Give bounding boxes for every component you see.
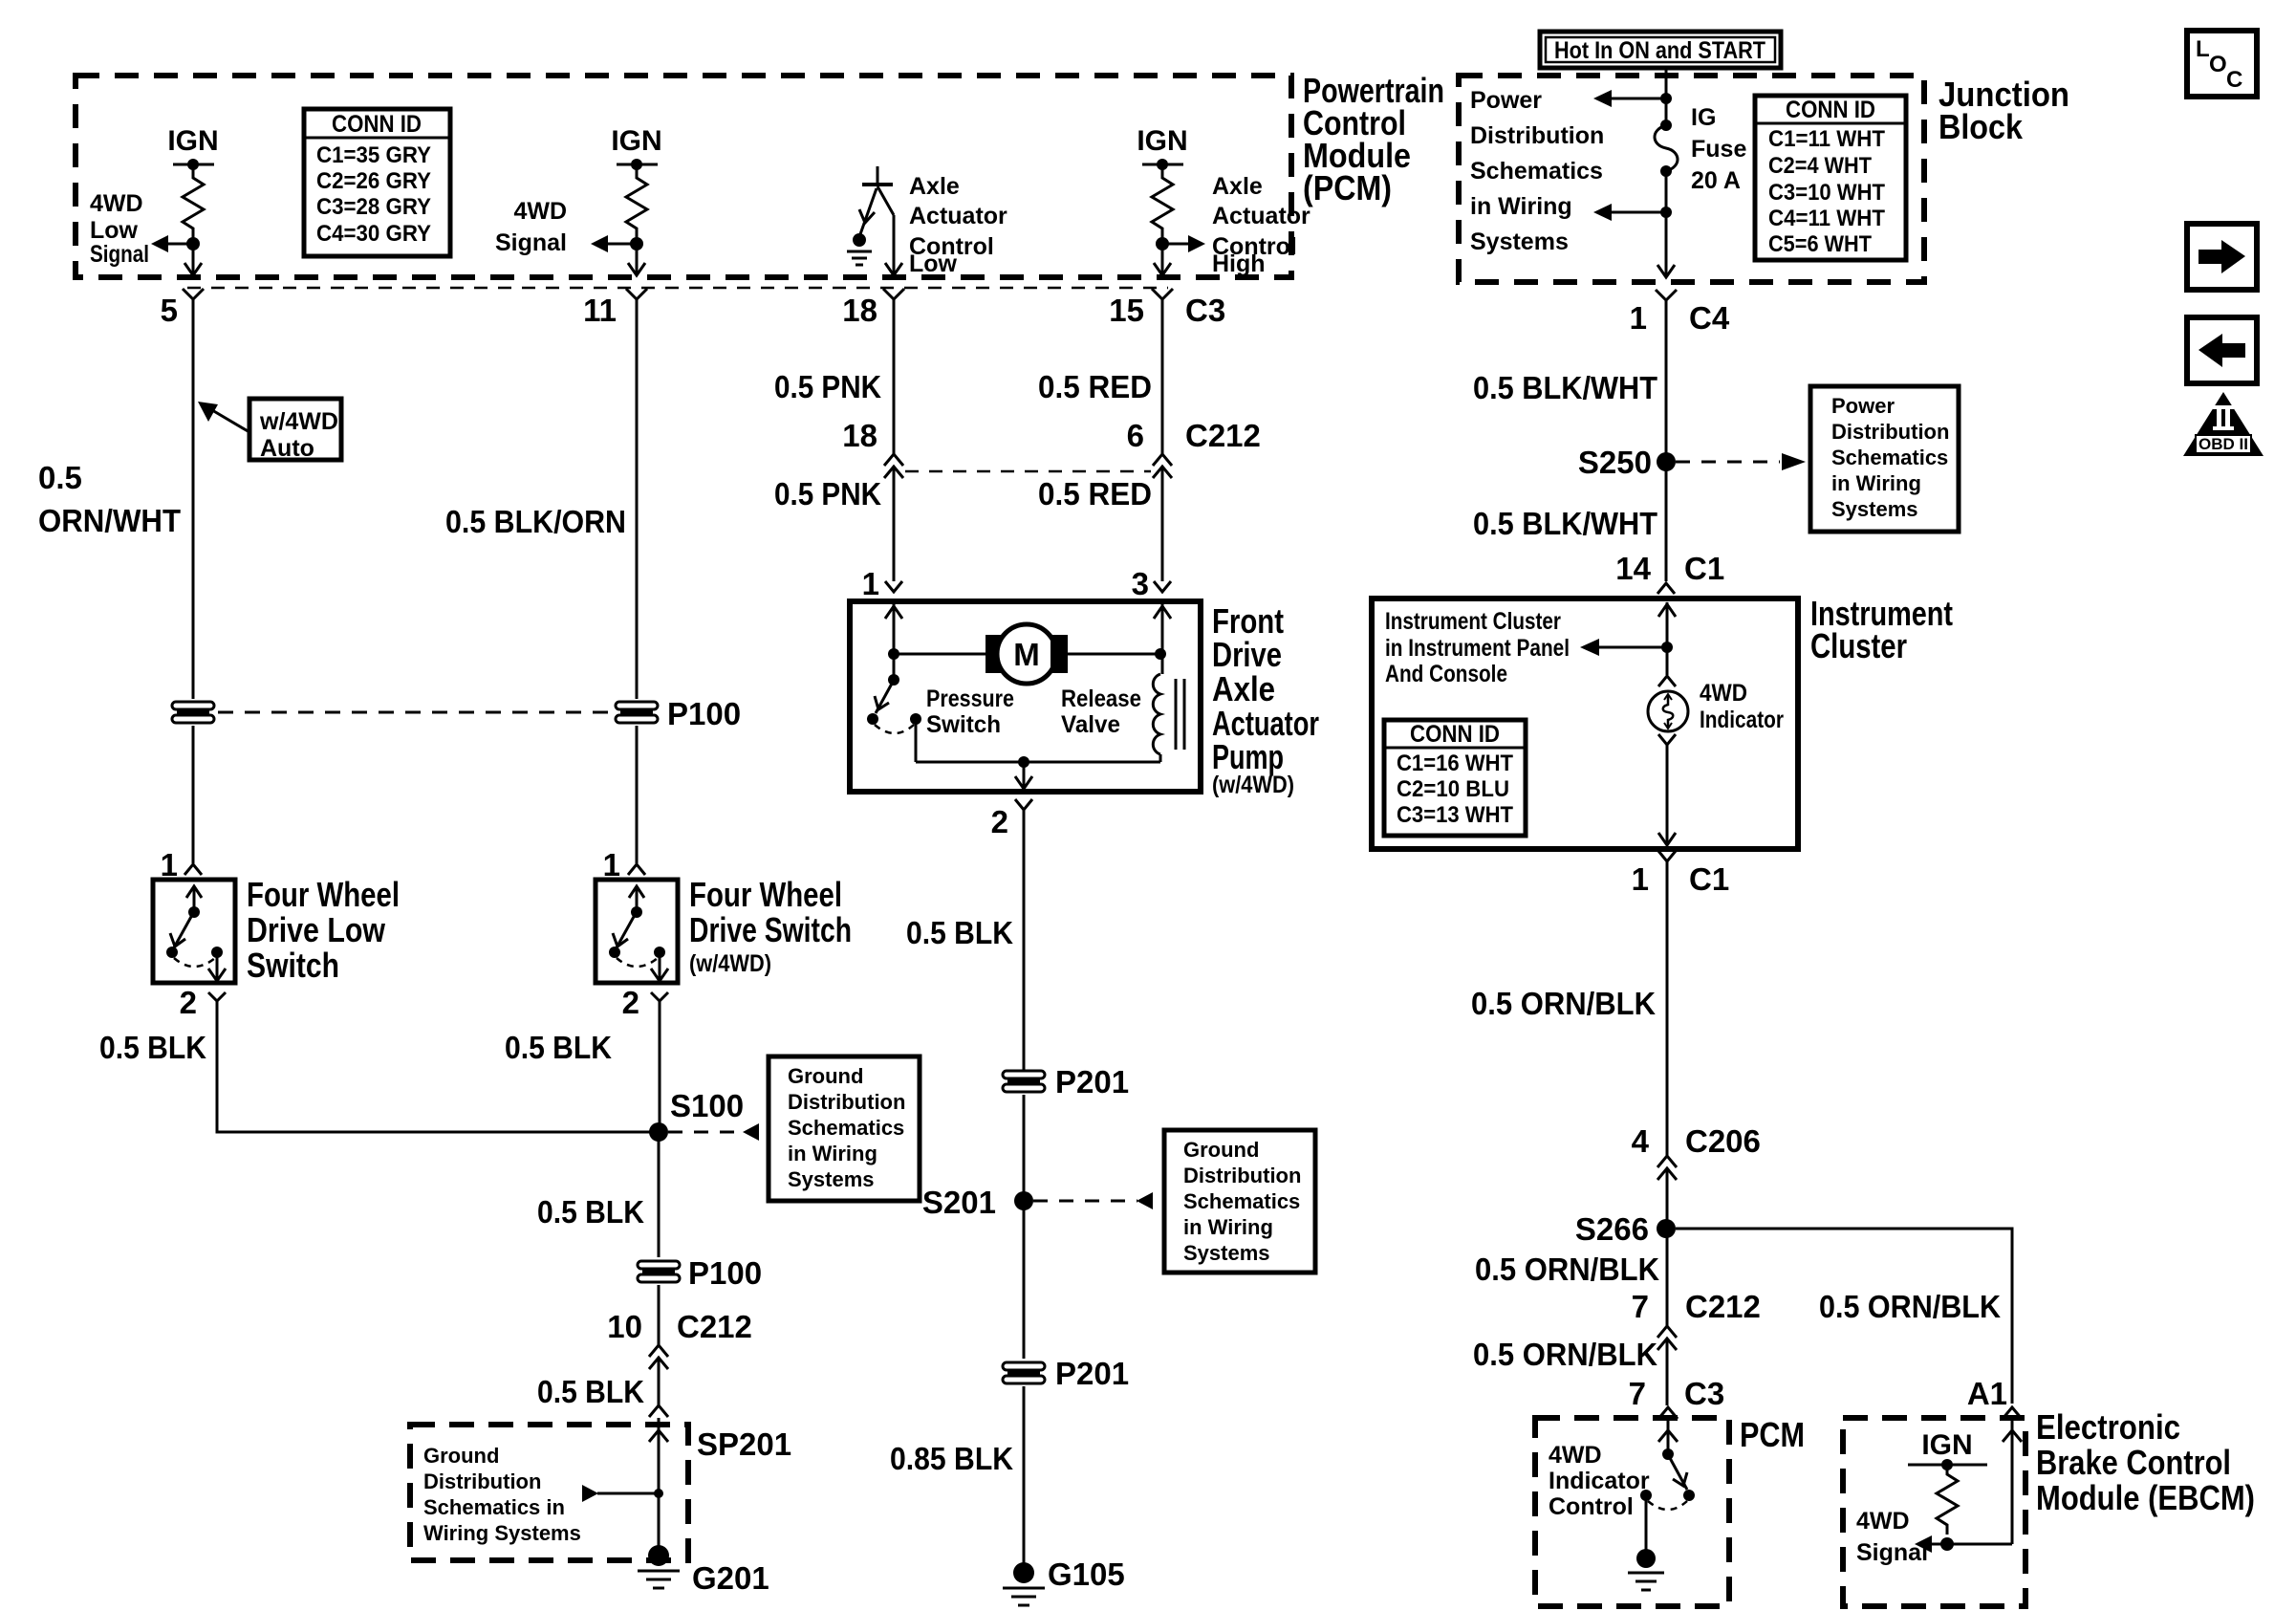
svg-text:C3=13 WHT: C3=13 WHT: [1397, 802, 1513, 828]
svg-text:IGN: IGN: [1137, 125, 1187, 157]
svg-text:4WD: 4WD: [1856, 1508, 1910, 1535]
svg-text:Hot In ON and START: Hot In ON and START: [1554, 37, 1765, 64]
wire (pin 15 to C212): [1161, 299, 1164, 454]
svg-text:2: 2: [991, 804, 1008, 839]
wire (pin 11 to P100): [636, 299, 639, 699]
svg-text:0.5 BLK/WHT: 0.5 BLK/WHT: [1473, 506, 1657, 541]
wire (pin 5 to P100): [192, 299, 195, 699]
label Instrument Cluster: [1810, 594, 1953, 665]
svg-text:Control: Control: [1549, 1493, 1634, 1520]
svg-text:Cluster: Cluster: [1810, 626, 1907, 665]
OBD II triangle badge: [2183, 392, 2264, 456]
label Power Distribution Schematics in Wiring Systems (JB): [1470, 87, 1604, 255]
grommet P100 (wire 2): [616, 702, 658, 723]
switch 4WD Indicator Control driver (PCM): [1640, 1448, 1695, 1553]
svg-text:Switch: Switch: [926, 711, 1001, 738]
connector C212 chevrons (right): [1657, 1326, 1677, 1405]
dashed link C212: [905, 470, 1151, 473]
wire (JB output to pin 1 C4): [1657, 212, 1675, 277]
svg-text:C3=28 GRY: C3=28 GRY: [316, 194, 431, 220]
label Electronic Brake Control Module (EBCM): [2036, 1407, 2255, 1517]
resistor (Axle Actuator Control High): [1152, 164, 1173, 242]
svg-text:Signal: Signal: [495, 229, 567, 256]
svg-text:Schematics: Schematics: [1183, 1189, 1300, 1213]
node 4WD Signal arrow (EBCM): [1915, 1420, 2022, 1553]
svg-text:Wiring Systems: Wiring Systems: [423, 1521, 581, 1545]
label 4WD Signal (EBCM): [1856, 1508, 1928, 1566]
connector line C1-C4 (thin dashed): [187, 287, 1168, 290]
connector fork pin 1 (switch 2): [628, 864, 645, 875]
svg-text:Systems: Systems: [788, 1167, 875, 1191]
label 4WD Indicator Control: [1549, 1442, 1650, 1520]
node feed branch arrow (lower): [1593, 171, 1672, 221]
svg-text:0.5 BLK: 0.5 BLK: [505, 1030, 612, 1065]
ground G105: [1003, 1562, 1045, 1605]
connector chevron (above PCM): [1658, 1407, 1678, 1419]
label 4WD Low Signal: [90, 190, 149, 268]
svg-text:(w/4WD): (w/4WD): [689, 950, 771, 977]
svg-text:Schematics in: Schematics in: [423, 1495, 565, 1519]
node IGN (wire 2): [611, 125, 661, 170]
wire (pin 15 exit, PCM): [1154, 244, 1171, 275]
wire (pin 18 to C212): [893, 299, 896, 454]
wire (cluster to C206): [1666, 861, 1669, 1156]
svg-text:Switch: Switch: [247, 946, 339, 985]
svg-text:IGN: IGN: [611, 125, 661, 157]
svg-text:0.5 BLK/WHT: 0.5 BLK/WHT: [1473, 370, 1657, 405]
label Release Valve: [1061, 686, 1141, 738]
wire (pin 18 exit, PCM): [885, 215, 902, 275]
connector fork pin 2 (switch 1): [208, 992, 226, 1001]
svg-text:C1=35 GRY: C1=35 GRY: [316, 142, 431, 168]
wire (lamp to cluster pin 1): [1658, 734, 1676, 845]
lamp 4WD Indicator: [1648, 691, 1688, 731]
wire (pump pin 1 internal): [885, 604, 902, 660]
svg-text:High: High: [1212, 250, 1266, 277]
svg-text:C: C: [2226, 67, 2242, 93]
reference arrow SP201: [582, 1485, 663, 1502]
label Instrument Cluster in Instrument Panel And Console: [1385, 608, 1570, 687]
label Ground Distribution Schematics in Wiring Systems (SP201): [423, 1444, 581, 1545]
svg-text:CONN ID: CONN ID: [332, 111, 422, 138]
svg-text:4WD: 4WD: [513, 198, 567, 225]
svg-text:0.5 BLK: 0.5 BLK: [537, 1194, 644, 1230]
svg-text:0.5 PNK: 0.5 PNK: [774, 476, 881, 512]
reference arrow S250 (dashed to Power Distribution): [1676, 453, 1806, 470]
wire (pin 11 exit, PCM): [628, 244, 645, 275]
svg-text:IGN: IGN: [1921, 1429, 1972, 1461]
svg-text:Electronic: Electronic: [2036, 1407, 2180, 1447]
PCM label "Powertrain Control Module (PCM)": [1303, 71, 1444, 207]
svg-text:20 A: 20 A: [1691, 167, 1741, 194]
Front Drive Axle Actuator Pump box: [850, 601, 1201, 792]
connector fork pin 2 (switch 2): [651, 992, 668, 1001]
svg-text:(w/4WD): (w/4WD): [1212, 772, 1294, 798]
svg-text:0.5 BLK/ORN: 0.5 BLK/ORN: [445, 504, 626, 539]
grommet P100 (wire 1): [172, 702, 214, 723]
svg-text:15: 15: [1109, 293, 1144, 328]
svg-text:C4=30 GRY: C4=30 GRY: [316, 221, 431, 247]
svg-text:Drive Switch: Drive Switch: [689, 910, 852, 949]
svg-text:P100: P100: [688, 1255, 762, 1291]
svg-text:14: 14: [1615, 551, 1651, 586]
svg-text:Schematics: Schematics: [788, 1116, 904, 1140]
ground G201: [638, 1545, 680, 1588]
svg-text:C1=11 WHT: C1=11 WHT: [1768, 126, 1885, 152]
reference box Ground Distribution Schematics in Wiring Systems (S201): [1164, 1130, 1315, 1273]
svg-text:3: 3: [1132, 566, 1149, 601]
svg-text:C5=6 WHT: C5=6 WHT: [1768, 231, 1872, 257]
label Four Wheel Drive Switch (w/4WD): [689, 875, 852, 977]
svg-text:0.5 BLK: 0.5 BLK: [537, 1374, 644, 1409]
svg-text:Four Wheel: Four Wheel: [689, 875, 842, 914]
svg-text:in Wiring: in Wiring: [1831, 471, 1921, 495]
reference box Ground Distribution Schematics in Wiring Systems (S100): [769, 1056, 920, 1201]
svg-text:Auto: Auto: [260, 435, 314, 462]
connector fork pin 1 (switch 1): [184, 864, 202, 875]
svg-text:G105: G105: [1048, 1557, 1125, 1592]
svg-text:Power: Power: [1831, 394, 1895, 418]
svg-text:P100: P100: [667, 696, 741, 731]
svg-text:Instrument Cluster: Instrument Cluster: [1385, 608, 1561, 635]
svg-text:2: 2: [180, 985, 197, 1020]
svg-text:P201: P201: [1055, 1064, 1129, 1099]
PCM module dashed box: [76, 76, 1291, 277]
dashed link P100 pair: [218, 711, 612, 714]
svg-text:C2=26 GRY: C2=26 GRY: [316, 168, 431, 194]
splice S201: [1014, 1191, 1033, 1210]
svg-text:P201: P201: [1055, 1356, 1129, 1391]
svg-text:Signal: Signal: [90, 241, 149, 268]
svg-text:Brake Control: Brake Control: [2036, 1443, 2231, 1482]
svg-text:Indicator: Indicator: [1549, 1468, 1650, 1494]
svg-text:0.85 BLK: 0.85 BLK: [890, 1441, 1013, 1476]
label Junction Block: [1939, 75, 2069, 146]
SP201 dashed box: [410, 1425, 688, 1560]
svg-text:0.5: 0.5: [38, 460, 82, 495]
wire (C3 into PCM): [1658, 1420, 1678, 1454]
svg-text:4WD: 4WD: [1700, 680, 1747, 707]
svg-text:0.5 ORN/BLK: 0.5 ORN/BLK: [1471, 986, 1656, 1021]
node cluster feed arrow: [1580, 639, 1667, 656]
svg-text:7: 7: [1629, 1376, 1646, 1411]
legend left-arrow box: [2187, 317, 2257, 383]
svg-text:C4=11 WHT: C4=11 WHT: [1768, 206, 1885, 231]
resistor (4WD Low Signal pull-up): [183, 164, 204, 242]
wire (switch 2 pin 2 down to S100): [659, 1001, 661, 1132]
svg-text:C2=4 WHT: C2=4 WHT: [1768, 153, 1872, 179]
wire (C4 to instrument cluster): [1665, 300, 1668, 581]
splice pack chevron (above SP201): [649, 1405, 668, 1556]
svg-text:1: 1: [862, 566, 879, 601]
resistor (4WD Signal EBCM): [1937, 1465, 1958, 1535]
svg-text:Module (EBCM): Module (EBCM): [2036, 1478, 2255, 1517]
Junction Block dashed box: [1459, 76, 1924, 282]
wire (P201 to G105): [1023, 1386, 1026, 1573]
svg-text:C1: C1: [1684, 551, 1724, 586]
connector fork pin 15: [1152, 289, 1173, 299]
wire (C212 to pump pin 1): [893, 467, 896, 574]
svg-text:S250: S250: [1578, 445, 1652, 480]
svg-text:Schematics: Schematics: [1831, 446, 1948, 469]
node IGN (wire 4): [1137, 125, 1187, 170]
svg-text:IGN: IGN: [167, 125, 218, 157]
Four Wheel Drive Low Switch box: [153, 880, 235, 983]
node 4WD Signal arrow: [591, 235, 643, 252]
wire (pin 5 exit, PCM): [184, 244, 202, 275]
label IG Fuse 20 A: [1691, 104, 1746, 194]
label Four Wheel Drive Low Switch: [247, 875, 400, 985]
connector fork pin 3 (pump): [1154, 574, 1171, 592]
svg-text:Distribution: Distribution: [1831, 420, 1949, 444]
Hot In ON and START box: [1540, 32, 1781, 68]
svg-text:Systems: Systems: [1183, 1241, 1270, 1265]
svg-text:Block: Block: [1939, 107, 2024, 146]
connector fork pin 1 (cluster bottom): [1658, 851, 1676, 861]
svg-text:6: 6: [1127, 418, 1144, 453]
svg-text:S100: S100: [670, 1088, 744, 1123]
svg-text:Actuator: Actuator: [1212, 203, 1310, 229]
svg-text:11: 11: [583, 293, 617, 328]
splice S250: [1657, 452, 1676, 471]
wire (C212 to pump pin 3): [1161, 467, 1164, 574]
label 4WD Indicator: [1700, 680, 1784, 733]
svg-text:1: 1: [161, 847, 178, 882]
reference arrow S201 (dashed to Ground Distribution): [1033, 1192, 1153, 1209]
CONN ID table (Instrument Cluster): [1384, 720, 1526, 836]
svg-text:C1=16 WHT: C1=16 WHT: [1397, 751, 1513, 776]
legend right-arrow box: [2187, 224, 2257, 290]
CONN ID table (Junction Block): [1755, 96, 1906, 260]
connector fork pin 11: [626, 289, 647, 299]
svg-text:Ground: Ground: [1183, 1138, 1259, 1162]
fuse IG Fuse 20 A: [1655, 98, 1678, 177]
svg-text:CONN ID: CONN ID: [1410, 721, 1500, 748]
svg-text:0.5 ORN/BLK: 0.5 ORN/BLK: [1475, 1252, 1659, 1287]
connector chevron (above 4WD indicator): [1658, 647, 1676, 686]
svg-text:Distribution: Distribution: [1183, 1164, 1301, 1187]
node IGN (wire 1): [167, 125, 218, 170]
wire (P100 to C212): [658, 1285, 661, 1345]
motor M (pump): [894, 624, 1166, 684]
label 0.5 ORN/WHT: [38, 460, 181, 538]
LOC legend box: [2187, 31, 2257, 97]
switch internals (Four Wheel Drive Low Switch): [166, 886, 226, 981]
node feed branch arrow (top): [1593, 90, 1672, 107]
svg-text:S266: S266: [1575, 1211, 1649, 1247]
splice pack chevron (inside SP201): [649, 1430, 668, 1442]
svg-text:Actuator: Actuator: [909, 203, 1007, 229]
svg-text:Release: Release: [1061, 686, 1141, 712]
svg-text:C212: C212: [1685, 1289, 1761, 1324]
svg-text:IG: IG: [1691, 104, 1716, 131]
Instrument Cluster box: [1372, 599, 1798, 849]
svg-text:Distribution: Distribution: [788, 1090, 905, 1114]
svg-text:1: 1: [1632, 861, 1649, 897]
svg-text:0.5 BLK: 0.5 BLK: [99, 1030, 206, 1065]
svg-text:Fuse: Fuse: [1691, 136, 1746, 163]
svg-text:w/4WD: w/4WD: [259, 408, 338, 435]
PCM bottom dashed box: [1535, 1418, 1729, 1606]
w/4WD Auto callout box: [198, 399, 341, 462]
svg-text:C212: C212: [1185, 418, 1261, 453]
connector fork pin 1 C4: [1656, 290, 1677, 300]
connector C212 chevrons (wire 3): [884, 454, 903, 478]
svg-text:Distribution: Distribution: [423, 1469, 541, 1493]
svg-text:Power: Power: [1470, 87, 1542, 114]
svg-text:Four Wheel: Four Wheel: [247, 875, 400, 914]
svg-text:Axle: Axle: [909, 173, 960, 200]
connector chevron (above EBCM A1): [2003, 1407, 2022, 1419]
wire (pump internal ground run): [916, 754, 1160, 789]
reference arrow S100 (dashed to Ground Distribution): [668, 1123, 759, 1141]
svg-text:M: M: [1013, 637, 1040, 672]
grommet P100 (lower): [638, 1261, 680, 1282]
svg-text:in Wiring: in Wiring: [788, 1142, 877, 1165]
svg-text:4WD: 4WD: [90, 190, 143, 217]
connector fork pin 18: [883, 289, 904, 299]
svg-text:0.5 RED: 0.5 RED: [1038, 369, 1152, 404]
svg-text:O: O: [2209, 52, 2227, 77]
svg-text:C206: C206: [1685, 1123, 1761, 1159]
svg-text:in Wiring: in Wiring: [1183, 1215, 1273, 1239]
grommet P201 (upper): [1003, 1071, 1045, 1092]
connector C212 chevrons (wire 4): [1153, 454, 1172, 478]
svg-text:Schematics: Schematics: [1470, 158, 1603, 185]
connector fork pin 14: [1657, 583, 1675, 594]
switch internals (Four Wheel Drive Switch): [609, 886, 668, 981]
svg-text:Pump: Pump: [1212, 737, 1284, 776]
wire (cluster pin 14 internal): [1658, 602, 1676, 653]
pressure switch (pump): [867, 654, 921, 762]
reference box Power Distribution Schematics in Wiring Systems (S250): [1810, 386, 1959, 532]
connector C206 chevrons: [1657, 1156, 1677, 1326]
svg-text:C3=10 WHT: C3=10 WHT: [1768, 180, 1885, 206]
svg-text:(PCM): (PCM): [1303, 168, 1392, 207]
connector fork pin 5: [183, 289, 204, 299]
wire (P100 to switch 1 pin 1): [192, 726, 195, 863]
wire (switch 1 pin 2 down and over to S100): [217, 1001, 658, 1132]
ground (PCM internal): [1628, 1549, 1664, 1590]
svg-text:18: 18: [842, 293, 877, 328]
svg-text:C3: C3: [1185, 293, 1225, 328]
label Axle Actuator Control Low: [909, 173, 1007, 277]
label 4WD Signal: [495, 198, 567, 256]
splice S266: [1657, 1219, 1676, 1238]
svg-text:SP201: SP201: [697, 1426, 791, 1462]
svg-text:Low: Low: [909, 250, 958, 277]
wire (pump pin 2 down to P201): [1023, 810, 1026, 1071]
svg-text:L: L: [2196, 36, 2210, 62]
svg-text:C1: C1: [1689, 861, 1729, 897]
wire (below S100 down): [658, 1132, 661, 1257]
grommet P201 (lower): [1003, 1362, 1045, 1383]
svg-text:in Instrument Panel: in Instrument Panel: [1385, 635, 1570, 662]
node Axle Actuator Control High arrow: [1156, 235, 1205, 252]
svg-text:1: 1: [603, 847, 620, 882]
svg-text:Systems: Systems: [1831, 497, 1918, 521]
svg-text:OBD II: OBD II: [2199, 435, 2248, 453]
svg-text:Drive Low: Drive Low: [247, 910, 386, 949]
connector fork pin 1 (pump): [885, 574, 902, 592]
svg-text:PCM: PCM: [1740, 1415, 1805, 1454]
svg-text:Systems: Systems: [1470, 229, 1569, 255]
svg-text:0.5 PNK: 0.5 PNK: [774, 369, 881, 404]
svg-text:S201: S201: [922, 1185, 996, 1220]
EBCM dashed box: [1843, 1418, 2025, 1606]
svg-text:4WD: 4WD: [1549, 1442, 1602, 1469]
node 4WD Low Signal arrow: [151, 235, 200, 252]
wire (P100 to switch 2 pin 1): [636, 726, 639, 863]
svg-text:C212: C212: [677, 1309, 752, 1344]
wire (P201 to S201): [1023, 1095, 1026, 1359]
CONN ID table (PCM): [304, 109, 450, 256]
Four Wheel Drive Switch box: [596, 880, 678, 983]
connector fork pin 2 (pump): [1015, 799, 1032, 810]
svg-text:CONN ID: CONN ID: [1786, 97, 1875, 123]
svg-text:C3: C3: [1684, 1376, 1724, 1411]
label Pressure Switch: [926, 686, 1014, 738]
svg-text:0.5 ORN/BLK: 0.5 ORN/BLK: [1473, 1337, 1657, 1372]
svg-text:Low: Low: [90, 217, 139, 244]
connector C212 chevrons (ground path): [649, 1345, 668, 1405]
svg-text:4: 4: [1632, 1123, 1650, 1159]
label Front Drive Axle Actuator Pump (w/4WD): [1212, 601, 1319, 798]
svg-text:Axle: Axle: [1212, 173, 1263, 200]
node IGN (EBCM): [1908, 1429, 1987, 1470]
svg-text:ORN/WHT: ORN/WHT: [38, 503, 181, 538]
wire (S266 branch to EBCM A1): [1676, 1229, 2012, 1404]
svg-text:18: 18: [842, 418, 877, 453]
svg-text:Drive: Drive: [1212, 635, 1282, 674]
svg-text:Ground: Ground: [788, 1064, 863, 1088]
svg-text:7: 7: [1632, 1289, 1649, 1324]
svg-text:0.5 ORN/BLK: 0.5 ORN/BLK: [1819, 1289, 2001, 1324]
svg-text:1: 1: [1630, 300, 1647, 336]
svg-text:Indicator: Indicator: [1700, 707, 1784, 733]
svg-text:Axle: Axle: [1212, 669, 1275, 708]
svg-text:Valve: Valve: [1061, 711, 1120, 738]
svg-text:And Console: And Console: [1385, 661, 1507, 687]
svg-text:5: 5: [161, 293, 178, 328]
svg-text:C2=10 BLU: C2=10 BLU: [1397, 776, 1509, 802]
label Axle Actuator Control High: [1212, 173, 1310, 277]
svg-text:Signal: Signal: [1856, 1539, 1928, 1566]
svg-text:0.5 BLK: 0.5 BLK: [906, 915, 1013, 950]
svg-text:G201: G201: [692, 1560, 769, 1596]
svg-text:2: 2: [622, 985, 639, 1020]
switch (Axle Actuator Control Low driver): [847, 166, 894, 265]
release valve coil (pump): [1153, 604, 1184, 754]
svg-text:in Wiring: in Wiring: [1470, 193, 1572, 220]
svg-text:C4: C4: [1689, 300, 1730, 336]
svg-text:0.5 RED: 0.5 RED: [1038, 476, 1152, 512]
svg-text:Distribution: Distribution: [1470, 122, 1604, 149]
svg-text:A1: A1: [1967, 1376, 2007, 1411]
svg-text:10: 10: [607, 1309, 642, 1344]
resistor (4WD Signal pull-up): [626, 164, 647, 242]
splice S100: [649, 1122, 668, 1142]
svg-text:Pressure: Pressure: [926, 686, 1014, 712]
wire (Hot feed into Junction Block): [1665, 68, 1668, 98]
svg-text:Ground: Ground: [423, 1444, 499, 1468]
